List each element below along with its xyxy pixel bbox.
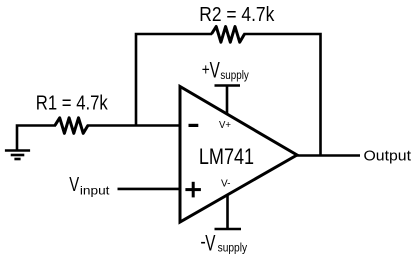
svg-text:V+: V+ bbox=[219, 119, 231, 131]
svg-text:V: V bbox=[210, 58, 220, 83]
wire: output bbox=[296, 154, 360, 157]
ground bbox=[5, 151, 30, 160]
pin: V- supply pin with bar bbox=[215, 194, 242, 229]
svg-text:V: V bbox=[69, 173, 79, 196]
svg-text:V: V bbox=[205, 231, 215, 256]
wire: feedback left vertical from node at inverting input up to R2 bbox=[136, 34, 212, 127]
resistor R1 zigzag bbox=[55, 118, 88, 134]
label Vinput bbox=[69, 173, 110, 198]
svg-text:V-: V- bbox=[221, 178, 231, 190]
svg-text:Output: Output bbox=[364, 147, 412, 164]
label -Vsupply bbox=[200, 231, 247, 256]
wire: inverting input segment from ground to R1 bbox=[17, 126, 56, 152]
label: minus at inverting input bbox=[189, 124, 199, 127]
svg-text:supply: supply bbox=[218, 240, 248, 254]
resistor R2 zigzag bbox=[212, 27, 245, 43]
svg-text:+: + bbox=[202, 61, 210, 79]
wire: feedback top right segment and right vertical down to output bbox=[244, 34, 321, 156]
wire: non-inverting input from Vinput bbox=[118, 188, 181, 191]
svg-text:R1 = 4.7k: R1 = 4.7k bbox=[36, 93, 109, 115]
wire: inverting input segment from R1 to op-amp bbox=[87, 124, 180, 127]
op-amp U1 (LM741) triangle body bbox=[180, 87, 297, 223]
pin: V+ supply pin with bar bbox=[215, 86, 241, 115]
svg-text:supply: supply bbox=[220, 68, 249, 82]
label: plus at non-inverting input bbox=[185, 182, 201, 198]
svg-text:R2 = 4.7k: R2 = 4.7k bbox=[199, 4, 275, 26]
label +Vsupply bbox=[202, 58, 250, 83]
svg-text:LM741: LM741 bbox=[199, 144, 254, 169]
svg-text:input: input bbox=[80, 183, 110, 197]
